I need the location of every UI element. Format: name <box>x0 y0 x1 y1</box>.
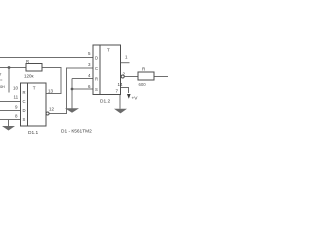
svg-text:600: 600 <box>139 82 147 87</box>
wire pin8 to ground <box>8 120 10 127</box>
D1.2 inversion circle on Q-bar <box>121 75 124 78</box>
wire S row D1.2 <box>72 88 93 90</box>
wire pin8 row <box>0 119 21 121</box>
flip-flop D1.2 box <box>93 45 121 95</box>
wire pin14 to +V <box>121 88 129 94</box>
wire pin7 to ground <box>119 95 121 109</box>
wire Q1 output D1.2 <box>121 62 130 64</box>
wire Q12 to C input of D1.2 <box>49 68 93 114</box>
wire top net to D input of D1.2 <box>0 57 93 59</box>
svg-text:4: 4 <box>88 73 91 78</box>
svg-text:5: 5 <box>88 51 91 56</box>
svg-text:3: 3 <box>88 62 91 67</box>
svg-text:8: 8 <box>15 114 18 119</box>
D1.1 inversion circle on Q-bar <box>46 112 49 115</box>
wire pin11 row <box>0 101 21 103</box>
svg-text:D1.1: D1.1 <box>28 130 38 136</box>
svg-text:=: = <box>0 78 3 83</box>
svg-text:R: R <box>142 67 146 72</box>
svg-text:14: 14 <box>118 82 124 87</box>
svg-text:S: S <box>95 87 98 92</box>
wire vertical input to pin 10 <box>8 68 10 93</box>
svg-text:D: D <box>95 55 98 60</box>
svg-text:12: 12 <box>49 107 55 112</box>
svg-text:6: 6 <box>88 84 91 89</box>
svg-text:D1.2: D1.2 <box>100 99 110 105</box>
svg-text:13: 13 <box>48 89 54 94</box>
svg-text:D: D <box>23 108 26 113</box>
wire R1 right lead to Q13 <box>42 68 61 94</box>
svg-text:10: 10 <box>13 85 19 90</box>
wire R input D1.2 to ground <box>71 79 73 110</box>
svg-text:R: R <box>26 59 29 64</box>
svg-text:S: S <box>23 117 26 122</box>
wire R row D1.2 <box>72 78 93 80</box>
wire pin9 row <box>0 110 21 112</box>
svg-text:T: T <box>107 48 110 53</box>
ground arrow under S-R tie <box>65 108 79 113</box>
svg-text:T: T <box>33 86 36 91</box>
resistor R2 body <box>138 72 154 80</box>
svg-text:D1 - К561ТМ2: D1 - К561ТМ2 <box>61 129 92 135</box>
wire input to resistor R1 <box>0 67 26 69</box>
D1.1 pin numbers 10 11 9 8 <box>13 85 19 118</box>
svg-text:он: он <box>0 84 5 89</box>
svg-text:120к: 120к <box>24 74 34 79</box>
svg-text:9: 9 <box>15 105 18 110</box>
svg-text:R: R <box>23 90 26 95</box>
junction S-R tie D1.2 <box>71 88 74 91</box>
svg-text:C: C <box>23 99 26 104</box>
svg-text:R: R <box>95 77 98 82</box>
D1.1 input letters R C D S <box>23 90 26 122</box>
svg-text:C: C <box>95 66 98 71</box>
D1.2 pin numbers 5 3 4 6 <box>88 51 91 89</box>
junction input node <box>8 66 11 69</box>
ground arrow lower left <box>2 126 15 131</box>
svg-text:1: 1 <box>125 55 128 60</box>
flip-flop D1.1 box <box>21 83 47 126</box>
D1.2 input letters D C R S <box>95 55 98 92</box>
wire R2 right lead <box>154 76 168 78</box>
ground arrow under pin 7 <box>114 109 127 114</box>
resistor R1 body <box>26 64 42 72</box>
svg-text:г: г <box>0 72 2 77</box>
+V supply arrow <box>127 94 131 99</box>
wire Q2 output to R2 <box>125 76 139 78</box>
svg-text:11: 11 <box>14 94 19 99</box>
svg-text:+V: +V <box>132 96 139 102</box>
left edge cut label stubs <box>0 72 5 90</box>
